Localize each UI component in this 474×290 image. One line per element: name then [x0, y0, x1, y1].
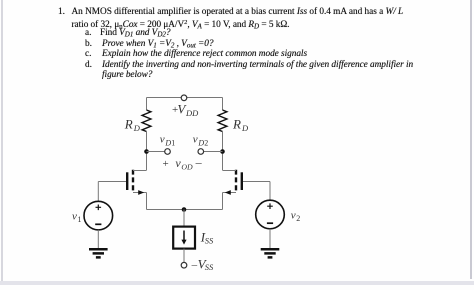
- label v1: [72, 211, 82, 224]
- svg-text:SS: SS: [205, 262, 214, 272]
- label RD left: [124, 116, 141, 133]
- label ISS: [200, 230, 214, 246]
- transistor Q2 source arrow: [225, 190, 231, 195]
- svg-text:R: R: [232, 116, 241, 131]
- transistor Q1 gate bar: [126, 172, 128, 190]
- label +VDD: [172, 101, 199, 118]
- wire stub to vD2 terminal: [203, 151, 222, 153]
- svg-text:D: D: [133, 123, 141, 133]
- svg-text:DD: DD: [185, 108, 199, 118]
- terminal +VDD: [181, 95, 187, 101]
- terminal vD2: [198, 149, 204, 155]
- source v1 plus: [96, 205, 102, 211]
- label v2: [291, 210, 301, 223]
- svg-text:+: +: [163, 158, 169, 170]
- wire right leg resistor to drain corner: [222, 132, 224, 171]
- transistor Q1 channel dashes: [132, 170, 134, 191]
- wire left leg above resistor: [146, 98, 148, 111]
- label vD1: [160, 133, 175, 147]
- wire common source rail: [147, 209, 223, 211]
- node left drain: [144, 149, 149, 154]
- source v2 minus: [267, 222, 273, 224]
- transistor Q2 channel dashes: [235, 170, 237, 191]
- wire v1 to ground: [97, 230, 99, 248]
- terminal vD1: [165, 149, 171, 155]
- left page edge: [1, 0, 3, 285]
- problem text: [58, 7, 65, 17]
- resistor RD right: [218, 110, 227, 132]
- svg-text:v: v: [72, 211, 77, 223]
- svg-text:D: D: [241, 123, 249, 133]
- transistor Q2 gate bar: [241, 172, 243, 190]
- ground v2: [261, 249, 280, 257]
- source v1 minus: [95, 223, 101, 225]
- svg-text:SS: SS: [205, 235, 214, 245]
- transistor Q2 source lead: [223, 192, 237, 194]
- svg-text:v: v: [291, 210, 296, 222]
- wire Q2 source down: [222, 193, 224, 210]
- label -VSS: [191, 257, 214, 272]
- wire left leg resistor to drain corner: [146, 132, 148, 171]
- wire Q1 gate: [98, 181, 126, 183]
- source v1 circle: [84, 201, 113, 230]
- terminal -VSS: [181, 262, 187, 268]
- label vD2: [193, 133, 208, 147]
- svg-text:1: 1: [78, 215, 82, 224]
- svg-text:OD: OD: [181, 163, 193, 172]
- current source ISS arrow: [183, 231, 185, 241]
- current source ISS box: [173, 227, 195, 249]
- transistor Q1 source lead: [133, 192, 147, 194]
- svg-text:–: –: [191, 259, 198, 271]
- resistor RD left: [142, 110, 151, 132]
- svg-text:–: –: [195, 155, 203, 169]
- svg-text:1: 1: [171, 139, 175, 148]
- wire Q2 gate: [243, 181, 270, 183]
- wire stub to vD1 terminal: [147, 151, 166, 153]
- svg-text:R: R: [124, 116, 133, 131]
- wire top rail VDD: [147, 97, 223, 99]
- node right drain: [220, 149, 225, 154]
- bottom page band: [0, 281, 474, 285]
- svg-text:2: 2: [296, 214, 300, 223]
- source v2 plus: [267, 203, 273, 209]
- label + vOD -: [163, 155, 203, 172]
- wire Q1 source down: [146, 193, 148, 210]
- wire v1 gate drop: [97, 182, 99, 202]
- transistor Q1 source arrow: [138, 190, 144, 195]
- node common source: [182, 207, 187, 212]
- transistor Q2 drain lead: [223, 170, 237, 172]
- wire v2 gate drop: [269, 182, 271, 201]
- label RD right: [232, 116, 249, 133]
- transistor Q1 drain lead: [133, 170, 147, 172]
- wire ISS box to -VSS terminal: [183, 249, 185, 263]
- svg-text:2: 2: [204, 139, 208, 148]
- wire junction to current source: [183, 210, 185, 227]
- svg-text:v: v: [160, 133, 165, 145]
- ground v1: [89, 249, 108, 257]
- right page edge: [470, 0, 472, 279]
- svg-text:v: v: [193, 133, 198, 145]
- wire v2 to ground: [269, 229, 271, 248]
- source v2 circle: [256, 200, 285, 229]
- wire right leg above resistor: [222, 98, 224, 111]
